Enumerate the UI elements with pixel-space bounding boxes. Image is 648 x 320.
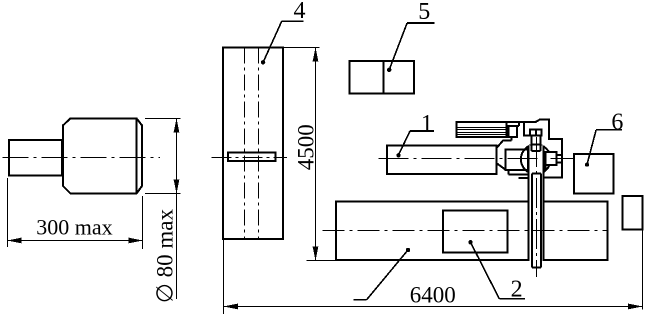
spindle lower sleeve [531, 174, 533, 268]
svg-text:1: 1 [421, 111, 433, 137]
spindle quill upper part [532, 136, 542, 268]
saddle lower step line [509, 173, 528, 175]
bed centerline [323, 230, 608, 232]
column 4 rectangle [223, 48, 283, 240]
bed inner rectangle [443, 211, 508, 253]
workpiece body [63, 118, 142, 193]
dim dia80 top extension line [145, 118, 181, 120]
motor block striped [456, 122, 506, 137]
motor end notch vertical [518, 122, 520, 126]
slide block rectangle [506, 149, 528, 170]
label 5 leader dot [387, 68, 391, 72]
label 1 leader line [399, 131, 411, 155]
wheel mount block left edge extension [544, 165, 546, 170]
label 4 leader dot [261, 60, 265, 64]
svg-text:300 max: 300 max [36, 215, 112, 240]
dim 6400 dimension line [224, 306, 643, 308]
far right small rectangle [622, 196, 642, 230]
wheel fork right line [543, 146, 545, 261]
spindle sleeve top line [532, 173, 541, 175]
bar workpiece in column [228, 153, 276, 162]
dim dia80 bottom extension line [145, 193, 181, 195]
motor stripe lines [456, 128, 506, 135]
wheel fork left line [527, 146, 529, 261]
spindle upper joint line [532, 150, 541, 152]
label 5 leader line [389, 23, 407, 70]
grinding wheel circle [521, 144, 551, 174]
bare leader line [367, 250, 408, 300]
workpiece shaft [9, 140, 62, 175]
label 1 leader shelf [410, 130, 434, 132]
dim 6400 right extension line [642, 230, 644, 310]
label 2 leader shelf [499, 298, 525, 300]
dim 4500 top extension line [283, 47, 320, 49]
svg-text:2: 2 [511, 276, 523, 302]
dim dia80 up arrow [174, 119, 180, 133]
dim 300max left extension line [7, 178, 9, 247]
column 4 inner centerline right [258, 48, 260, 240]
bar centerline [212, 157, 288, 159]
square 6 rectangle [574, 154, 613, 194]
wheel mount medium block [545, 152, 556, 165]
bare leader dot [406, 248, 410, 252]
dim 300max right extension line [142, 196, 144, 249]
label 4 leader line [263, 21, 282, 62]
wheel fork white mask [529, 145, 544, 261]
spindle cap divider [535, 130, 537, 136]
label 1 leader dot [396, 153, 400, 157]
bare leader shelf [353, 299, 366, 301]
machine axis centerline [378, 158, 573, 160]
svg-text:6400: 6400 [410, 282, 456, 307]
dim 6400 left arrow [224, 304, 239, 310]
svg-text:4: 4 [294, 0, 306, 24]
column 4 inner centerline left [244, 48, 246, 240]
spindle cap [530, 130, 542, 136]
workpiece chamfer line [136, 118, 138, 193]
label 4 leader shelf [282, 20, 304, 22]
motor mount connector [511, 137, 513, 141]
dim dia80 down arrow [174, 180, 180, 194]
dim 4500 dimension line [315, 48, 317, 261]
dim 6400 right arrow [628, 304, 643, 310]
wheel mount small block [557, 155, 562, 163]
dim 6400 left extension line [223, 239, 225, 314]
svg-text:6: 6 [611, 109, 623, 135]
workpiece centerline [3, 157, 161, 159]
spindle centerline vertical [536, 137, 538, 277]
wheelhead body bottom edge left remnant [519, 177, 528, 179]
cabinet 5 rectangle [350, 61, 414, 93]
label 5 leader shelf [407, 22, 435, 24]
table 1 rectangle [387, 145, 497, 174]
motor end notch bottom [507, 125, 519, 127]
svg-text:4500: 4500 [294, 124, 319, 170]
label 2 leader line [471, 242, 500, 299]
saddle lower step vertical [508, 170, 510, 174]
dim 300max left arrow [8, 238, 22, 244]
dim 300max dimension line [8, 240, 143, 242]
dim dia80 vertical dimension line [176, 119, 178, 300]
spindle tip bottom [532, 267, 541, 269]
dim 4500 up arrow [313, 48, 319, 62]
motor mount small block [508, 126, 517, 137]
label 6 leader shelf [596, 129, 622, 131]
head top contour [507, 120, 562, 178]
label 2 leader dot [468, 240, 472, 244]
label 6 leader dot [585, 162, 589, 166]
saddle nose pentagon [497, 141, 512, 170]
cabinet 5 divider [382, 61, 384, 93]
bed 2 rectangle [336, 202, 608, 260]
dim 4500 bottom extension line [307, 260, 336, 262]
head left edge [524, 122, 530, 136]
svg-text:∅ 80 max: ∅ 80 max [152, 209, 177, 304]
label 6 leader line [587, 130, 596, 165]
dim 300max right arrow [129, 238, 143, 244]
dim 4500 down arrow [313, 247, 319, 261]
svg-text:5: 5 [418, 0, 430, 25]
